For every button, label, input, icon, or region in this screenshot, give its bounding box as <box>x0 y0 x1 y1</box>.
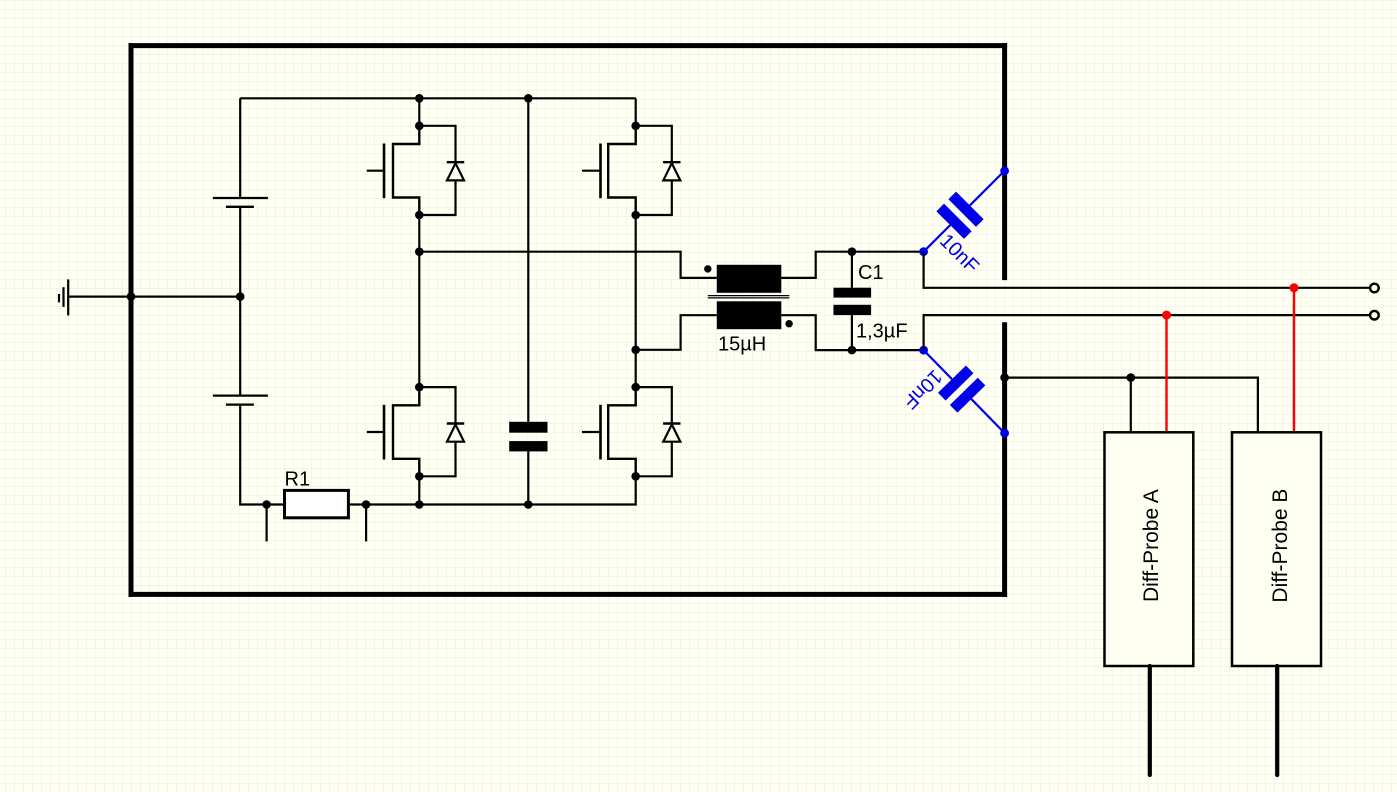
probe B box <box>1232 432 1321 666</box>
junction shield probe A <box>1127 373 1136 382</box>
wire right leg mid <box>635 215 637 387</box>
probe A lead <box>1148 666 1152 775</box>
junction left leg mid rail <box>415 247 424 256</box>
wire stub below R1 left <box>266 505 268 542</box>
junction bottom rail mid cap <box>524 500 533 509</box>
junction R1 left <box>262 500 271 509</box>
wire red to probe A <box>1165 315 1167 431</box>
node red top output <box>1290 283 1299 292</box>
diode D3 (body) <box>419 387 464 476</box>
junction top rail mid cap <box>524 94 533 103</box>
wire red to probe B <box>1293 288 1295 431</box>
wire shield into probe A <box>1130 378 1132 432</box>
svg-text:Diff-Probe A: Diff-Probe A <box>1140 489 1163 602</box>
junction right leg transformer <box>631 346 640 355</box>
junction battery mid <box>236 292 245 301</box>
node blue top cap lower <box>919 247 928 256</box>
terminal bottom <box>1370 311 1379 320</box>
wire left leg top <box>418 98 420 126</box>
junction top rail left leg <box>415 94 424 103</box>
capacitor C4 10nF bottom (blue) <box>910 336 1019 446</box>
junction bottom rail left leg <box>415 500 424 509</box>
wire left leg bottom <box>418 476 420 504</box>
wire right leg to transformer bottom <box>636 315 717 350</box>
terminal top <box>1370 284 1379 293</box>
enclosure box <box>129 43 1008 597</box>
ground <box>59 279 68 315</box>
transistor Q3 bottom-left MOSFET <box>367 383 424 481</box>
wire output top <box>924 252 1371 288</box>
wire top rail <box>240 97 636 99</box>
wire shield to probes <box>1005 378 1258 432</box>
node blue bottom cap lower <box>1000 429 1009 438</box>
svg-text:1,3µF: 1,3µF <box>856 320 908 342</box>
node blue top cap upper <box>1000 166 1009 175</box>
capacitor C1 <box>834 247 872 354</box>
capacitor C3 10nF top (blue) <box>910 157 1019 266</box>
battery V2 <box>213 396 268 405</box>
junction on enclosure <box>127 292 136 301</box>
wire ground to battery <box>69 296 240 298</box>
wire stub below R1 right <box>365 505 367 542</box>
junction R1 right <box>362 500 371 509</box>
transistor Q4 bottom-right MOSFET <box>582 383 640 481</box>
probe B lead <box>1275 666 1279 775</box>
battery V1 <box>213 198 268 207</box>
node red bottom output <box>1162 311 1171 320</box>
probe A box <box>1105 432 1194 666</box>
transformer TR1 <box>704 265 793 329</box>
svg-text:C1: C1 <box>858 262 884 284</box>
wire output bottom <box>924 315 1371 350</box>
svg-text:15µH: 15µH <box>718 334 766 356</box>
wire transformer top right to C1 <box>781 252 923 278</box>
diode D2 (body) <box>636 126 681 215</box>
wire transformer bottom right to C1 <box>781 315 923 350</box>
wire left leg mid <box>418 215 420 387</box>
node blue bottom cap upper <box>919 346 928 355</box>
svg-text:Diff-Probe B: Diff-Probe B <box>1269 489 1292 603</box>
diode D1 (body) <box>419 126 464 215</box>
wire bottom rail <box>366 476 636 504</box>
diode D4 (body) <box>636 387 681 476</box>
wire right leg top <box>635 98 637 126</box>
wire battery column <box>240 98 266 504</box>
wire mid rail to transformer <box>419 252 717 278</box>
wire R1 left <box>267 503 285 505</box>
svg-text:R1: R1 <box>285 468 311 490</box>
capacitor C2 mid <box>509 98 547 504</box>
transistor Q1 top-left MOSFET <box>367 122 424 220</box>
transistor Q2 top-right MOSFET <box>582 122 640 220</box>
junction shield on enclosure <box>1000 373 1009 382</box>
wire R1 right <box>348 503 366 505</box>
resistor R1 <box>285 490 349 517</box>
